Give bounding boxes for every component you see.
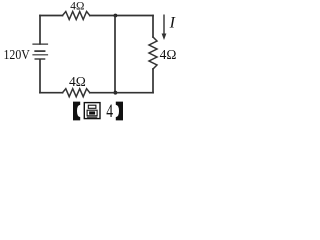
battery V1 120V [33, 44, 48, 59]
svg-text:I: I [169, 15, 176, 32]
wire left lower (battery to bottom corner) [39, 60, 41, 93]
wire bottom-right segment [90, 92, 153, 94]
wire bottom-left segment [40, 92, 63, 94]
resistor R2 (bottom, 4Ω) [63, 89, 90, 97]
node junction top [114, 14, 118, 18]
svg-text:4Ω: 4Ω [160, 47, 177, 62]
resistor R3 (right, 4Ω, vertical) [149, 37, 157, 69]
wire left upper (top corner to battery) [39, 16, 41, 44]
svg-text:4Ω: 4Ω [69, 74, 86, 89]
wire middle vertical [114, 16, 116, 93]
svg-text:4: 4 [106, 101, 113, 122]
svg-text:120V: 120V [4, 48, 30, 63]
current arrow I [162, 15, 167, 41]
svg-text:4Ω: 4Ω [70, 1, 84, 13]
caption bracket 】 [116, 102, 123, 121]
wire top-right segment [90, 15, 153, 17]
resistor R1 (top, 4Ω) [63, 12, 90, 20]
wire right lower (resistor to bottom corner) [152, 69, 154, 93]
wire top-left segment [40, 15, 63, 17]
node junction bottom [114, 91, 118, 95]
wire right upper (top corner down to resistor) [152, 16, 154, 38]
caption character 圖 [84, 103, 100, 119]
caption bracket 【 [73, 102, 80, 121]
